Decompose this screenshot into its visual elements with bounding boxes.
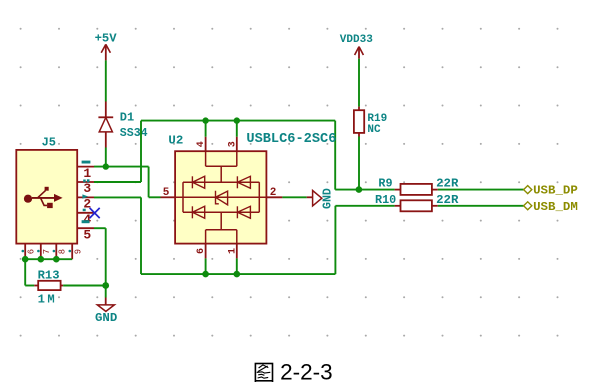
wire top rail D+ net [141,121,395,190]
svg-text:5: 5 [163,187,170,199]
svg-text:3: 3 [83,181,91,196]
J5 pin 2 (D-) [77,194,94,211]
resistor R19 [354,107,387,137]
svg-text:4: 4 [83,212,91,227]
svg-text:+5V: +5V [95,32,118,46]
svg-text:6: 6 [196,248,207,254]
J5 pin 3 (D+) [77,179,94,196]
junction shield pin6 [22,256,29,263]
U2 pin 1 [227,244,238,259]
J5 shield pin 7 [37,244,52,260]
junction shield pin8 [53,256,60,263]
junction U2 pin4 on top rail [202,117,208,123]
resistor R9 [378,176,459,195]
svg-text:1M: 1M [38,293,58,307]
svg-text:GND: GND [95,311,117,325]
svg-text:USB_DP: USB_DP [533,184,578,198]
svg-text:GND: GND [321,188,334,209]
wire J5 pin1 to U2 pin5 (VBUS net) [94,167,161,198]
resistor R13 [34,268,63,306]
junction shield pin7 [38,256,45,263]
svg-text:9: 9 [74,249,84,254]
resistor R10 [375,193,459,212]
J5 pin 5 (GND) [77,220,94,242]
wire U2 pin2 to GND arrow [282,196,306,198]
wire bottom rail D- net [141,206,395,274]
J5 shield pin 9 [69,244,84,260]
diode D1 [98,102,147,148]
U2 internal diode lower-right [237,206,250,218]
U2 internal frame [175,182,266,212]
caption text: 图 2-2-3 (CJK glyph drawn as strokes) [255,360,332,385]
U2 pin 3 [227,137,238,152]
wire J5 pin3 up to top rail (D+ net) [94,121,141,182]
wire shield bus under J5 [25,259,72,285]
svg-text:4: 4 [196,141,207,147]
junction U2 pin3 on top rail [234,117,240,123]
J5 pin 1 (VBUS) [77,161,94,181]
svg-text:VDD33: VDD33 [340,34,373,46]
U2 internal diode upper-left [192,176,204,188]
U2 internal diode lower-left [192,206,204,218]
wire R19 to R9 junction [358,137,360,190]
svg-text:U2: U2 [168,133,183,147]
connector J5 [16,136,77,244]
svg-text:J5: J5 [42,136,56,150]
wire R13 to GND junction [63,285,106,287]
svg-text:22R: 22R [436,176,459,190]
wire U2 pin3 to top rail [236,121,238,137]
wire U2 pin4 to top rail [205,121,207,137]
junction GND node [102,282,109,289]
svg-text:3: 3 [227,141,238,147]
ground GND (right, rotated) [307,188,335,209]
J5 shield pin 6 [22,244,37,260]
wire +5V to D1 [105,60,107,101]
wire VDD33 to R19 [358,59,360,107]
J5 shield pin 8 [53,244,68,260]
wire U2 pin6 to bottom rail [205,258,207,274]
wire U2 pin1 to bottom rail [236,258,238,274]
junction U2 pin1 on bottom rail [234,271,241,278]
svg-text:2: 2 [270,187,277,199]
J5 pin 4 (ID) [77,209,94,227]
power symbol VDD33 [340,34,373,59]
wire junction to GND symbol [105,286,107,298]
svg-text:1: 1 [83,166,91,181]
wire J5 pin2 down to bottom rail (D- net) [94,197,141,274]
grid dots (decorative) [20,28,559,337]
svg-text:USB_DM: USB_DM [533,200,578,214]
svg-text:SS34: SS34 [120,127,148,140]
svg-text:1: 1 [227,248,238,254]
power symbol +5V [95,32,118,61]
svg-text:R13: R13 [38,268,60,282]
svg-text:22R: 22R [436,193,459,207]
U2 internal bottom bus [206,212,237,243]
hierarchical label USB_DP [524,184,578,198]
U2 internal top bus [206,151,237,182]
svg-text:5: 5 [83,227,91,242]
U2 pin 4 [196,137,207,152]
U2 pin 6 [196,244,207,259]
svg-text:8: 8 [58,249,68,254]
svg-text:R9: R9 [378,176,392,190]
IC U2 USBLC6-2SC6 body [168,132,336,244]
svg-text:R10: R10 [375,193,396,207]
svg-text:USBLC6-2SC6: USBLC6-2SC6 [246,132,336,147]
no-connect X on J5 pin 4 [90,208,100,218]
wire R10 to USB_DM label [438,205,524,207]
wire D1 to VBUS junction [105,148,107,167]
wire R9 to USB_DP label [438,189,524,191]
ground GND (bottom) [95,298,117,325]
svg-text:7: 7 [42,249,52,254]
U2 pin 5 [161,187,176,199]
USB icon inside J5 [24,187,63,208]
svg-text:D1: D1 [120,111,134,125]
wire J5 pin5 to GND [94,228,106,285]
junction U2 pin6 on bottom rail [202,271,209,278]
svg-text:2-2-3: 2-2-3 [280,360,333,385]
U2 internal zener diode (center) [216,191,228,205]
hierarchical label USB_DM [524,200,578,214]
junction VBUS node [103,163,109,169]
junction R19/R9 node [356,186,363,193]
svg-text:6: 6 [27,249,37,254]
U2 internal diode upper-right [237,176,250,188]
svg-text:NC: NC [367,124,381,136]
U2 pin 2 [266,187,282,199]
